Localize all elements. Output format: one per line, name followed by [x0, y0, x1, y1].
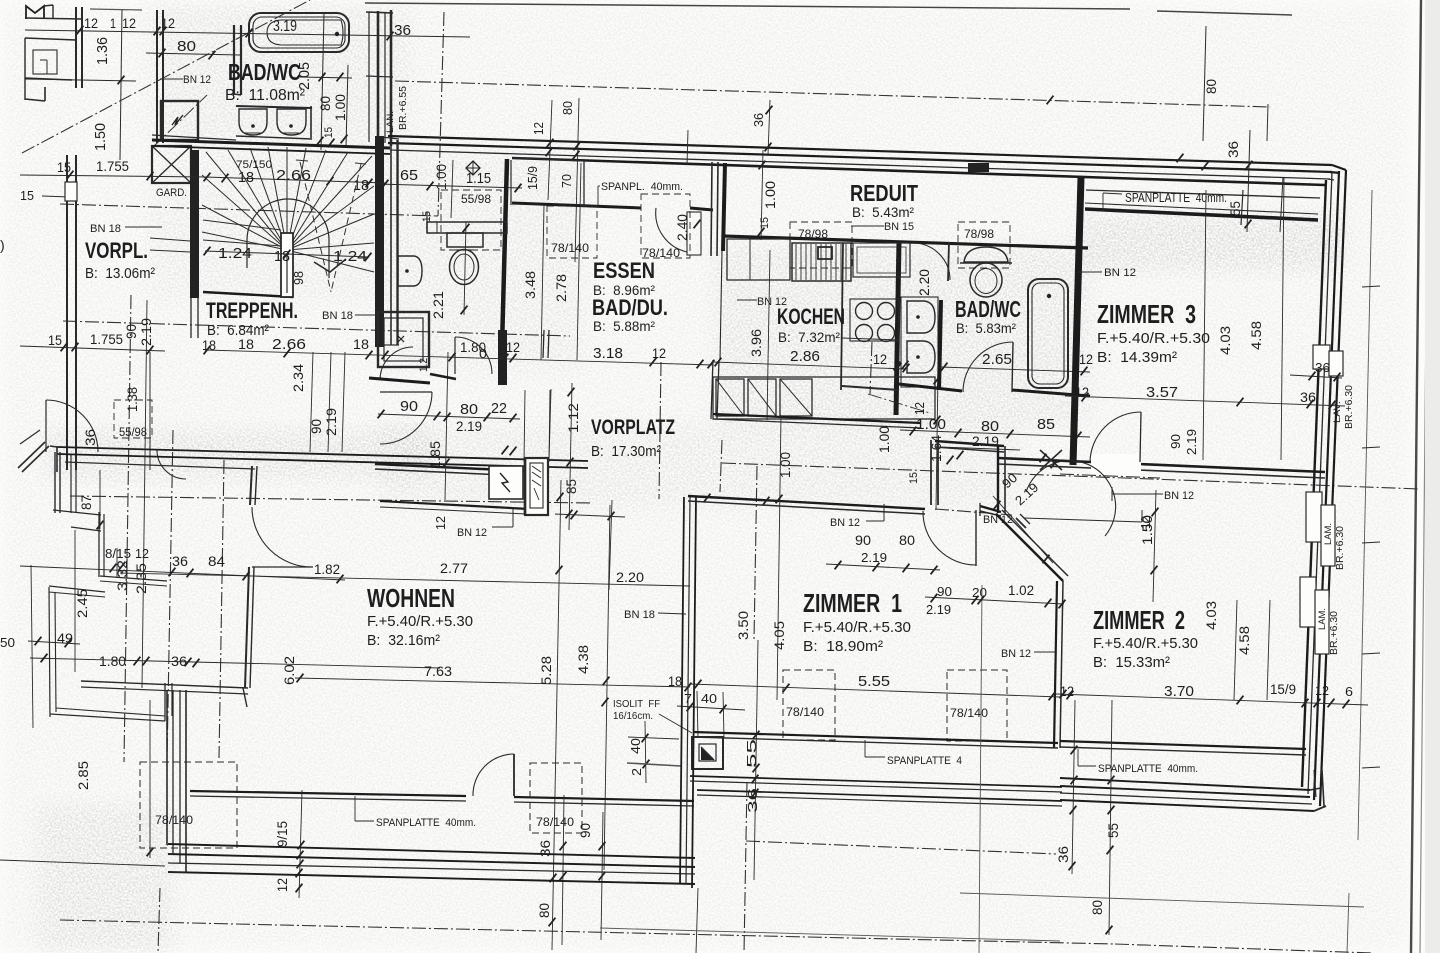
- svg-text:BN 12: BN 12: [457, 527, 487, 539]
- svg-text:BN 18: BN 18: [322, 310, 353, 322]
- baddu door column: [498, 330, 507, 385]
- dim line x578: [575, 98, 579, 262]
- dim line 1.80 36: [30, 658, 440, 668]
- svg-text:B: 13.06m²: B: 13.06m²: [85, 265, 155, 282]
- stair left wall: [190, 150, 199, 298]
- dash-dot axis C through vorplatz: [70, 496, 592, 503]
- svg-text:SPANPLATTE 4: SPANPLATTE 4: [887, 755, 962, 767]
- svg-text:12: 12: [84, 15, 98, 31]
- exterior wall right line3: [1308, 172, 1332, 794]
- svg-text:5.55: 5.55: [858, 673, 890, 690]
- wall corner join top-right: [1332, 165, 1346, 170]
- reduit left wall: [723, 163, 725, 251]
- dim line 2.65: [940, 367, 1090, 372]
- z1 jog wall: [930, 440, 932, 505]
- svg-text:LAN.: LAN.: [385, 111, 395, 133]
- svg-text:1: 1: [110, 15, 116, 31]
- svg-text:84: 84: [208, 553, 225, 569]
- svg-text:1.02: 1.02: [1008, 582, 1034, 598]
- washing square: [378, 312, 429, 367]
- dim line 2.19 badwc: [940, 447, 1020, 450]
- baddu door arc: [455, 337, 492, 374]
- dim line x1112: [1109, 700, 1112, 935]
- dim line gard bottom: [150, 238, 190, 241]
- svg-text:20: 20: [972, 585, 987, 600]
- entry wall band l2: [57, 454, 588, 468]
- diagonal door nib: [1016, 518, 1026, 528]
- svg-text:70: 70: [559, 174, 574, 188]
- svg-text:2.86: 2.86: [790, 348, 820, 365]
- dim line 2.86: [713, 362, 906, 369]
- bathtub right dot: [1047, 294, 1051, 298]
- svg-text:BAD/WC: BAD/WC: [228, 59, 301, 85]
- svg-text:15: 15: [908, 472, 920, 484]
- dim line 4.38: [604, 505, 610, 870]
- dim line z2: [1056, 694, 1368, 705]
- stair wall thin extension: [190, 298, 192, 338]
- dashed door 78/140 a: [547, 206, 597, 258]
- dim line 7.63: [295, 678, 690, 687]
- svg-text:BR.+6.30: BR.+6.30: [1344, 385, 1355, 429]
- svg-text:B: 15.33m²: B: 15.33m²: [1093, 654, 1170, 671]
- entry wall band dark segment: [375, 464, 525, 471]
- svg-text:BN 12: BN 12: [983, 514, 1013, 526]
- roof mark M glyph: [26, 6, 44, 19]
- svg-text:12: 12: [531, 122, 546, 135]
- dim line 2.45: [74, 530, 76, 672]
- wall wohnen-z1: [680, 497, 684, 884]
- svg-text:1.50: 1.50: [92, 123, 109, 151]
- z3 bottom wall: [998, 458, 1325, 472]
- svg-text:SPANPLATTE 40mm.: SPANPLATTE 40mm.: [376, 817, 476, 829]
- washbasin 2: [277, 109, 306, 135]
- dash-dot vertical v8 x756: [754, 466, 757, 640]
- dash-dot axis E end hook: [1267, 104, 1268, 141]
- exterior wall right interior: [1302, 180, 1326, 787]
- dim line 2.21: [464, 222, 466, 315]
- treppenhaus right wall: [375, 136, 384, 347]
- svg-text:22: 22: [491, 400, 507, 417]
- svg-text:2.19: 2.19: [323, 408, 339, 436]
- wall connectors top bathroom: [366, 12, 393, 13]
- isolit leader: [659, 714, 692, 733]
- z2 door arc: [1026, 461, 1116, 536]
- svg-text:BR.+6.30: BR.+6.30: [1329, 611, 1340, 655]
- electro box N: [161, 101, 198, 140]
- right dim dashes: [1362, 286, 1380, 287]
- small block left wall: [75, 7, 77, 88]
- dim line 1.00 column b: [346, 65, 348, 148]
- dim line x550: [548, 100, 552, 200]
- svg-text:36: 36: [394, 22, 411, 39]
- dim line 4.58 z2: [1267, 600, 1270, 700]
- counter line under stove: [842, 338, 899, 340]
- dim line 1.64: [936, 372, 938, 510]
- svg-text:98: 98: [291, 271, 306, 285]
- svg-text:LAM.: LAM.: [1317, 608, 1327, 630]
- bathtub right: [1028, 279, 1068, 388]
- dim line 7-40: [677, 706, 745, 710]
- dash-dot axis E reduit top: [395, 81, 1270, 107]
- dim line 2.77 row: [120, 573, 690, 586]
- svg-text:85: 85: [563, 479, 579, 494]
- spanplatte leader wohnen: [354, 796, 356, 821]
- wall pair wohnen lower-left: [166, 690, 168, 845]
- dim line stairs upper: [205, 177, 385, 183]
- svg-text:9/15: 9/15: [274, 821, 290, 847]
- speckle band vorplatz: [380, 422, 1020, 508]
- vestibule door arc: [380, 392, 432, 444]
- entry wall band l3: [65, 462, 255, 469]
- electro white box: [489, 466, 523, 499]
- kochen cabinet top: [727, 239, 790, 280]
- svg-text:BN 18: BN 18: [90, 223, 121, 235]
- svg-text:2.66: 2.66: [272, 336, 306, 353]
- svg-text:15/9: 15/9: [525, 166, 540, 190]
- dim line 20-102: [925, 597, 1064, 604]
- short dim line y77: [300, 77, 352, 78]
- bottom right vline b: [1347, 893, 1349, 953]
- svg-text:1.00: 1.00: [762, 181, 778, 209]
- speckle band baddu: [385, 150, 585, 370]
- dash-dot diagonal top-left: [22, 0, 310, 153]
- essen top shelf wall: [512, 203, 641, 208]
- dim line 3.57: [1065, 396, 1345, 406]
- dash-dot axis B through treppenhaus label: [63, 321, 570, 336]
- outer wall step v2: [98, 512, 100, 577]
- dim line 1.00 baddu: [451, 160, 453, 218]
- dim line 3.48: [541, 205, 544, 360]
- svg-text:1.12: 1.12: [565, 403, 581, 433]
- svg-text:B: 5.43m²: B: 5.43m²: [852, 204, 914, 220]
- svg-text:2.34: 2.34: [290, 364, 306, 392]
- dashed V span mark: [300, 162, 331, 292]
- dim line 36 corr: [768, 100, 770, 155]
- svg-text:1.00: 1.00: [332, 94, 348, 121]
- stair treads left: [203, 220, 281, 230]
- wohnen left wall lower: [245, 567, 249, 688]
- z1 corner wall v: [997, 446, 999, 513]
- svg-text:REDUIT: REDUIT: [850, 180, 918, 206]
- dim line x1075: [1072, 700, 1075, 874]
- svg-text:90: 90: [1168, 434, 1183, 449]
- svg-text:B: 7.32m²: B: 7.32m²: [778, 329, 840, 345]
- svg-text:36: 36: [1225, 141, 1241, 158]
- svg-text:12: 12: [652, 345, 666, 361]
- spanplatte leader z1: [864, 740, 866, 757]
- exterior wall right outer: [1320, 170, 1346, 806]
- svg-text:BR.+6.55: BR.+6.55: [398, 86, 409, 130]
- speckle band zimmer3 top: [1080, 215, 1345, 270]
- exterior wall top band outer: [388, 136, 1332, 165]
- svg-text:90: 90: [855, 532, 871, 548]
- svg-text:WOHNEN: WOHNEN: [367, 583, 455, 613]
- z1 door2 leaf: [975, 510, 977, 566]
- dim lines vest2: [328, 352, 331, 452]
- terrace wall right: [164, 683, 166, 721]
- dim line 1.36 column: [120, 9, 122, 160]
- svg-text:18: 18: [274, 248, 290, 265]
- dash-dot vertical v11 x159: [158, 888, 160, 953]
- svg-text:1.755: 1.755: [96, 158, 129, 174]
- niche shelf: [427, 222, 507, 233]
- svg-text:12: 12: [135, 546, 149, 561]
- svg-text:B: 5.88m²: B: 5.88m²: [593, 318, 655, 334]
- baddu sink: [398, 256, 422, 286]
- svg-text:12: 12: [122, 15, 136, 31]
- washbasin 1: [239, 109, 267, 135]
- stairs door arc low: [157, 450, 186, 479]
- svg-text:15: 15: [57, 159, 71, 175]
- stair newel post: [281, 233, 293, 297]
- toilet2 bowl: [970, 263, 1002, 297]
- reduit bottom wall: [723, 236, 1088, 248]
- dash-dot bottom long axis: [60, 920, 1115, 944]
- svg-text:2.45: 2.45: [74, 589, 90, 618]
- wohnen left wall upper: [250, 466, 252, 505]
- z1 jog top wall: [935, 441, 1004, 446]
- dash-dot branch y841: [746, 841, 1056, 854]
- dim line 5.28: [552, 480, 561, 950]
- z1 door2 arc: [923, 511, 976, 565]
- svg-text:40: 40: [628, 738, 643, 754]
- right dim line far: [1358, 190, 1372, 840]
- dashed box 78/98 b: [958, 222, 1010, 268]
- dim line 1.00 corr: [761, 150, 763, 240]
- svg-text:7.63: 7.63: [424, 663, 452, 679]
- dim line 55 z3: [1247, 130, 1250, 232]
- z3 door arc: [1090, 412, 1141, 462]
- washbasin counter: [236, 106, 312, 108]
- svg-text:65: 65: [400, 167, 418, 184]
- badwc2 sink1: [907, 301, 935, 333]
- svg-text:5.28: 5.28: [538, 656, 554, 685]
- z2 left wall: [1054, 581, 1057, 748]
- dash-dot vertical v5 x172: [167, 430, 173, 760]
- svg-text:BN 12: BN 12: [830, 517, 860, 529]
- svg-text:BN 15: BN 15: [884, 221, 914, 233]
- svg-text:55/98: 55/98: [119, 425, 147, 439]
- line under M: [25, 18, 82, 19]
- svg-text:ZIMMER 1: ZIMMER 1: [803, 588, 902, 618]
- kochen left wall thin: [720, 251, 722, 360]
- svg-text:2.85: 2.85: [75, 761, 91, 790]
- svg-text:TREPPENH.: TREPPENH.: [206, 298, 298, 323]
- dashed window z1 b: [947, 670, 1007, 741]
- svg-text:2.19: 2.19: [138, 318, 154, 346]
- wall stairs top: [152, 140, 390, 148]
- svg-text:15: 15: [323, 127, 335, 138]
- svg-text:SPANPLATTE 40mm.: SPANPLATTE 40mm.: [1098, 763, 1198, 775]
- svg-text:12: 12: [274, 878, 290, 892]
- z3 interior top line: [1086, 190, 1320, 198]
- svg-text:36: 36: [751, 113, 766, 127]
- dim line badwc bottom: [900, 430, 1090, 437]
- svg-text:BN 18: BN 18: [624, 609, 655, 621]
- window right 3 sash b: [1315, 590, 1329, 654]
- dim line 2.20 vert: [609, 500, 612, 590]
- terrace bottom: [50, 714, 165, 721]
- svg-text:1.38: 1.38: [124, 387, 140, 412]
- dim line 5.55: [690, 684, 1060, 697]
- wohnen terrace door leaf: [513, 754, 515, 796]
- dim line 65: [378, 184, 522, 188]
- kochen right wall: [896, 241, 899, 415]
- terrace outline: [49, 586, 105, 592]
- spanplatte leader z2: [1077, 749, 1079, 766]
- svg-text:3.19: 3.19: [273, 18, 297, 35]
- stair walk line arc: [247, 199, 329, 278]
- reduit door arc: [913, 243, 950, 280]
- badwc2 sink2: [907, 341, 935, 373]
- corridor wall lines: [711, 162, 712, 256]
- toilet2 tank: [964, 247, 1008, 262]
- svg-text:1.24: 1.24: [218, 245, 252, 262]
- essen door leaf rect: [687, 212, 701, 255]
- svg-text:2.21: 2.21: [430, 291, 446, 319]
- svg-text:6: 6: [1345, 684, 1353, 699]
- dim line x571: [569, 383, 572, 530]
- svg-text:F.+5.40/R.+5.30: F.+5.40/R.+5.30: [367, 613, 473, 630]
- dim line 2-40: [645, 721, 646, 783]
- svg-text:80: 80: [1089, 900, 1105, 915]
- stair bottom wall: [203, 292, 293, 297]
- wohnen sw wall: [81, 681, 248, 688]
- wall right of top bathroom: [368, 12, 370, 142]
- svg-text:55: 55: [744, 739, 759, 768]
- svg-text:1.00: 1.00: [777, 452, 793, 478]
- dim line 49: [28, 641, 80, 644]
- svg-text:90: 90: [400, 398, 418, 415]
- dim line 1.85: [445, 352, 448, 500]
- window right 2 sash b: [1321, 505, 1335, 566]
- svg-text:12: 12: [1315, 683, 1329, 698]
- dash-dot vertical v9 x745: [744, 782, 747, 953]
- svg-text:4.38: 4.38: [575, 645, 591, 674]
- svg-text:12: 12: [1079, 351, 1093, 367]
- bottom thin line mid: [600, 928, 1060, 941]
- dim line x563: [562, 795, 564, 945]
- tick top wall 36: [1177, 154, 1184, 163]
- svg-text:F.+5.40/R.+5.30: F.+5.40/R.+5.30: [803, 619, 911, 636]
- svg-text:1.82: 1.82: [314, 561, 340, 577]
- exterior wall top band line2: [388, 143, 1332, 172]
- svg-text:50: 50: [0, 635, 15, 650]
- wohnen outer band 4: [168, 872, 695, 884]
- vorpl left wall upper: [66, 155, 68, 470]
- stove burners: [856, 303, 873, 320]
- svg-text:2.19: 2.19: [861, 550, 887, 565]
- z1 floor line: [693, 732, 1058, 743]
- z3 window sill dark: [1085, 209, 1318, 220]
- dim verticals 22 span: [524, 390, 525, 462]
- svg-text:36: 36: [1315, 360, 1330, 375]
- wohnen band left corners: [167, 844, 168, 846]
- dim line 2.34: [310, 352, 313, 452]
- svg-text:80: 80: [460, 401, 478, 418]
- diagonal dim line: [993, 496, 1053, 563]
- exterior wall top band interior: [512, 158, 1325, 185]
- svg-text:1.50: 1.50: [1139, 515, 1155, 545]
- svg-text:4.05: 4.05: [771, 621, 787, 650]
- svg-text:15: 15: [20, 188, 34, 203]
- svg-text:6.02: 6.02: [281, 656, 297, 685]
- niche wall vertical: [501, 159, 507, 384]
- svg-text:VORPLATZ: VORPLATZ: [591, 416, 675, 439]
- svg-text:4.03: 4.03: [1203, 601, 1219, 630]
- svg-text:0: 0: [479, 346, 487, 361]
- svg-text:80: 80: [560, 101, 575, 115]
- window dashed wohnen left: [140, 762, 237, 848]
- window right 3 sash a: [1300, 577, 1316, 627]
- svg-text:36: 36: [82, 429, 98, 446]
- svg-text:F.+5.40/R.+5.30: F.+5.40/R.+5.30: [1097, 330, 1210, 347]
- top wall marker: [968, 163, 989, 172]
- kitchen hatched unit: [792, 243, 851, 281]
- svg-text:36: 36: [172, 553, 188, 569]
- svg-text:55/98: 55/98: [461, 192, 491, 206]
- dim line 1.50 z2: [1153, 490, 1156, 602]
- dashed box 78/98 a: [790, 222, 852, 268]
- svg-text:B: 11.08m²: B: 11.08m²: [225, 87, 306, 104]
- svg-text:ZIMMER 3: ZIMMER 3: [1097, 299, 1196, 329]
- bathtub top: [249, 13, 349, 52]
- svg-text:4.58: 4.58: [1248, 321, 1264, 350]
- tick cluster tub bottom: [317, 137, 324, 146]
- dash-dot through electro box: [152, 95, 207, 148]
- svg-text:36: 36: [1300, 389, 1316, 405]
- svg-text:12: 12: [506, 339, 520, 355]
- outer wall steps entry: [54, 452, 56, 513]
- short line y79: [25, 79, 136, 81]
- wohnen terrace door arc: [473, 754, 514, 796]
- treppenh door arc: [380, 347, 413, 380]
- svg-text:ESSEN: ESSEN: [593, 258, 655, 283]
- treppenhaus right wall pair: [390, 140, 392, 345]
- baddu left wall: [390, 140, 392, 345]
- window right 1 sash b: [1329, 351, 1343, 376]
- entry wall left step: [56, 446, 58, 472]
- svg-text:36: 36: [171, 653, 187, 669]
- dim line 4.03 z2: [1234, 600, 1237, 700]
- dim line 2.05 column: [321, 13, 324, 150]
- wohnen lower walls: [243, 688, 247, 707]
- svg-text:15: 15: [421, 211, 433, 222]
- svg-text:2: 2: [629, 768, 644, 776]
- svg-text:78/140: 78/140: [551, 241, 589, 255]
- svg-text:SPANPLATTE 40mm.: SPANPLATTE 40mm.: [1125, 190, 1227, 205]
- stair fan lines: [202, 175, 287, 250]
- kitchen low cabinets: [713, 377, 935, 419]
- electro tall box: [525, 458, 548, 515]
- svg-text:4.58: 4.58: [1236, 626, 1252, 655]
- z3 sill thin: [1085, 203, 1318, 214]
- svg-text:2.40: 2.40: [674, 214, 690, 241]
- svg-text:87: 87: [78, 495, 94, 510]
- svg-text:78/140: 78/140: [950, 706, 988, 720]
- bottom thin line right: [960, 893, 1364, 907]
- z2 door X mark: [1040, 450, 1062, 470]
- z3 door gap white: [1091, 454, 1141, 476]
- wall pair x157: [156, 10, 158, 143]
- svg-text:80: 80: [536, 903, 552, 918]
- svg-text:3.48: 3.48: [522, 271, 538, 299]
- dash-dot axis E tick: [1047, 96, 1054, 105]
- svg-text:BN 12: BN 12: [1164, 490, 1194, 502]
- outer wall step h2: [100, 576, 167, 581]
- dim ticks top row: [77, 26, 84, 35]
- badwc2 door arc: [963, 342, 1013, 392]
